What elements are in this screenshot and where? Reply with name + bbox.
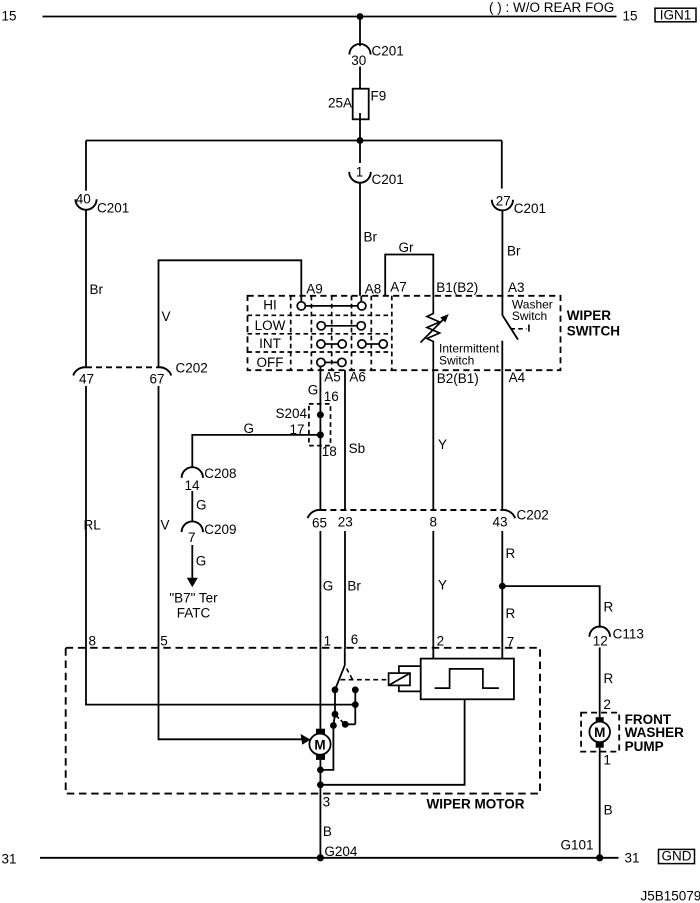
wiper switch grid row lines <box>248 315 392 352</box>
svg-text:14: 14 <box>185 478 201 493</box>
wire C113 to pump <box>599 648 601 718</box>
svg-text:OFF: OFF <box>257 355 284 370</box>
svg-text:16: 16 <box>324 389 339 404</box>
contact OFF left <box>317 358 325 366</box>
wiper switch box <box>248 296 561 370</box>
svg-text:65: 65 <box>312 516 327 531</box>
svg-text:GND: GND <box>662 849 692 864</box>
svg-text:2: 2 <box>603 697 611 712</box>
svg-text:Switch: Switch <box>439 353 474 367</box>
wire contact e to motor bottom <box>320 726 333 770</box>
fuse F9 25A <box>328 89 386 120</box>
contact INT right1 <box>358 340 366 348</box>
wire pin6 stub <box>344 648 346 665</box>
svg-text:Br: Br <box>90 282 104 297</box>
svg-text:6: 6 <box>351 632 359 647</box>
svg-text:G: G <box>244 421 255 436</box>
svg-text:C201: C201 <box>372 44 404 59</box>
svg-text:1: 1 <box>356 164 364 179</box>
connector C113 pin 12 <box>589 627 643 649</box>
wire R branch to washer pump <box>502 586 599 628</box>
wire A6 Sb down <box>344 370 346 510</box>
svg-text:15: 15 <box>2 9 17 24</box>
svg-text:1: 1 <box>324 633 332 648</box>
arrow into motor <box>301 734 311 745</box>
svg-text:FATC: FATC <box>177 605 211 620</box>
wire pin8 internal <box>86 648 355 705</box>
svg-text:WIPER: WIPER <box>567 308 612 323</box>
connector C201 pin 1 <box>349 164 404 187</box>
svg-text:47: 47 <box>79 371 94 386</box>
wire contact b down <box>354 690 356 725</box>
svg-text:3: 3 <box>323 795 331 810</box>
svg-text:Y: Y <box>438 437 447 452</box>
connector C202 pin 47 hook <box>73 367 86 375</box>
connector C202 dashed line left <box>86 366 159 368</box>
wire power rail 15 <box>43 16 617 18</box>
svg-text:G101: G101 <box>560 837 593 852</box>
wire G to motor pin1 <box>319 531 321 648</box>
svg-text:C202: C202 <box>517 508 549 523</box>
square wave symbol <box>435 669 499 688</box>
contact LOW right <box>357 322 365 330</box>
contact HI A8 <box>358 302 366 310</box>
wire LOW contacts link <box>325 325 357 327</box>
relay control dashed link <box>341 679 389 681</box>
junction dot motor bottom <box>317 767 324 774</box>
svg-text:Br: Br <box>347 578 361 593</box>
wire L to contact d <box>345 723 355 725</box>
svg-text:G: G <box>308 383 319 398</box>
connector C208 pin 14 <box>182 466 237 493</box>
svg-text:A6: A6 <box>349 370 366 385</box>
contact INT left1 <box>317 340 325 348</box>
junction R branch <box>499 583 506 590</box>
svg-text:SWITCH: SWITCH <box>567 324 620 339</box>
wiper switch grid vertical lines <box>291 296 392 370</box>
wire V lower <box>158 386 160 648</box>
svg-text:C201: C201 <box>372 172 404 187</box>
wire pin5 internal <box>159 648 302 740</box>
relay coil <box>389 673 410 685</box>
svg-text:G: G <box>196 498 207 513</box>
wire contact a down <box>334 690 336 714</box>
contact dot a <box>332 686 339 693</box>
wire right branch down <box>501 141 503 189</box>
junction on rail 15 <box>357 13 364 20</box>
relay coil bracket <box>399 666 421 691</box>
svg-text:INT: INT <box>259 336 281 351</box>
svg-text:V: V <box>161 518 170 533</box>
svg-text:31: 31 <box>625 851 640 866</box>
svg-text:67: 67 <box>150 371 165 386</box>
svg-text:8: 8 <box>89 634 97 649</box>
svg-text:IGN1: IGN1 <box>660 7 692 22</box>
svg-text:A8: A8 <box>365 281 382 296</box>
svg-text:B2(B1): B2(B1) <box>437 371 479 386</box>
svg-text:C201: C201 <box>514 201 546 216</box>
wire Y to pin2 <box>432 531 434 648</box>
svg-text:18: 18 <box>322 444 337 459</box>
svg-text:C202: C202 <box>176 361 208 376</box>
wire pin3 to ground <box>319 794 321 858</box>
svg-text:7: 7 <box>188 530 196 545</box>
svg-text:5: 5 <box>160 634 168 649</box>
wire A8 Br <box>359 183 361 296</box>
svg-text:C209: C209 <box>204 522 236 537</box>
svg-text:V: V <box>162 309 171 324</box>
svg-text:LOW: LOW <box>255 318 286 333</box>
blade2 solid <box>333 714 335 725</box>
relay timer box <box>421 659 514 700</box>
svg-text:8: 8 <box>430 515 438 530</box>
wire fuse to distribution rail <box>359 113 361 141</box>
svg-text:F9: F9 <box>371 89 387 104</box>
wire A5 G down <box>319 367 321 511</box>
wire pin1 to motor <box>319 648 321 729</box>
contact HI A9 <box>297 302 305 310</box>
wire distribution rail <box>86 140 502 142</box>
svg-text:27: 27 <box>496 193 511 208</box>
svg-text:B: B <box>604 803 613 818</box>
node GND <box>659 849 695 864</box>
connector C202 pin 65 hook <box>308 510 321 518</box>
svg-text:23: 23 <box>338 515 353 530</box>
junction dot pin3 <box>317 781 324 788</box>
svg-text:A7: A7 <box>390 280 407 295</box>
wire ground rail 31 <box>40 857 619 859</box>
connector C201 pin 30 <box>349 44 403 68</box>
wire R to pin7 <box>501 531 503 648</box>
svg-text:Y: Y <box>438 577 447 592</box>
svg-text:1: 1 <box>603 753 611 768</box>
wire pump to ground <box>599 748 601 858</box>
svg-text:2: 2 <box>437 633 445 648</box>
contact dot b <box>352 686 359 693</box>
svg-text:G204: G204 <box>324 844 358 859</box>
svg-text:A5: A5 <box>324 370 341 385</box>
wire C209 to FATC arrow <box>191 545 193 578</box>
svg-text:WIPER MOTOR: WIPER MOTOR <box>426 796 524 811</box>
svg-text:R: R <box>604 600 614 615</box>
svg-text:30: 30 <box>351 53 366 68</box>
svg-text:A4: A4 <box>509 370 526 385</box>
contact INT left2 <box>338 340 346 348</box>
connector C209 pin 7 <box>182 521 237 544</box>
svg-text:R: R <box>604 671 614 686</box>
switch link dashed diagonal <box>347 669 353 681</box>
svg-text:R: R <box>506 606 516 621</box>
svg-text:Sb: Sb <box>349 441 366 456</box>
wire splice to C208 <box>192 435 320 468</box>
svg-text:25A: 25A <box>328 96 352 111</box>
svg-text:A9: A9 <box>306 281 323 296</box>
ground G204 junction <box>317 854 324 861</box>
wire Br right branch <box>501 210 503 295</box>
svg-text:"B7" Ter: "B7" Ter <box>169 590 218 605</box>
svg-text:Br: Br <box>507 243 521 258</box>
svg-text:12: 12 <box>593 633 608 648</box>
wire B2(B1) Y down <box>432 370 434 510</box>
svg-text:M: M <box>594 725 605 740</box>
svg-text:R: R <box>506 546 516 561</box>
wire Br left branch <box>85 210 87 367</box>
wire HI contacts link <box>305 305 357 307</box>
wire center branch down <box>359 141 361 164</box>
contact INT right2 <box>379 340 387 348</box>
switch blade pin6 <box>335 665 345 690</box>
arrow to FATC <box>187 578 198 587</box>
svg-text:WASHER: WASHER <box>625 725 685 740</box>
wire V horizontal to A9 <box>159 260 302 367</box>
svg-text:HI: HI <box>263 298 277 313</box>
wire RL <box>85 386 87 648</box>
connector C202 pin 43 hook <box>502 510 515 518</box>
svg-text:7: 7 <box>507 635 515 650</box>
intermittent switch resistor <box>421 296 449 370</box>
svg-text:( ) : W/O REAR FOG: ( ) : W/O REAR FOG <box>489 0 614 15</box>
svg-text:Gr: Gr <box>399 240 415 255</box>
svg-text:31: 31 <box>2 852 17 867</box>
splice S204 <box>309 404 331 446</box>
wire pin7 to relay <box>501 648 503 659</box>
wire OFF link <box>325 361 338 363</box>
svg-text:43: 43 <box>493 515 508 530</box>
svg-text:PUMP: PUMP <box>625 739 664 754</box>
wire C201-30 to fuse F9 <box>359 67 361 96</box>
washer pump motor M1 <box>589 717 610 748</box>
junction dot on pin8 wire <box>352 701 359 708</box>
svg-text:B: B <box>323 824 332 839</box>
wire C208 to C209 <box>191 491 193 522</box>
contact OFF right <box>338 358 346 366</box>
wire left branch down <box>85 141 87 191</box>
svg-text:B1(B2): B1(B2) <box>436 280 478 295</box>
svg-text:Br: Br <box>364 230 378 245</box>
svg-text:J5B15079: J5B15079 <box>641 889 700 903</box>
connector C202 pin 67 hook <box>159 367 172 375</box>
contact dot d <box>342 721 349 728</box>
node IGN1 <box>655 7 696 22</box>
wire relay return <box>320 699 464 785</box>
connector C201 pin 40 <box>75 192 129 216</box>
pivot dot c <box>332 711 339 718</box>
ground G101 junction <box>596 854 603 861</box>
svg-text:A3: A3 <box>508 280 525 295</box>
wire INT left link <box>325 343 338 345</box>
svg-text:Switch: Switch <box>512 309 547 323</box>
junction on distribution rail <box>357 137 364 144</box>
wire motor bottom <box>319 760 321 794</box>
svg-text:C113: C113 <box>613 627 644 642</box>
svg-text:G: G <box>323 578 334 593</box>
front washer pump box <box>581 713 619 752</box>
svg-text:S204: S204 <box>275 406 307 421</box>
wire from rail to C201-30 <box>359 17 361 47</box>
connector C201 pin 27 <box>492 193 546 215</box>
svg-text:M: M <box>314 737 325 752</box>
wire Br to motor pin6 <box>344 531 346 648</box>
wire A4 down <box>501 370 503 510</box>
svg-text:C208: C208 <box>204 466 236 481</box>
wire A7 Gr loop <box>385 255 433 296</box>
contact LOW left <box>317 322 325 330</box>
connector C202 dashed line right <box>320 509 502 511</box>
wiper motor box <box>66 648 540 794</box>
svg-text:RL: RL <box>84 518 102 533</box>
svg-text:G: G <box>196 553 207 568</box>
wire pin2 to relay <box>432 648 434 659</box>
washer switch <box>502 296 529 370</box>
wire INT right link <box>366 343 379 345</box>
blade2 dashed link <box>337 716 343 722</box>
svg-text:C201: C201 <box>97 201 129 216</box>
svg-text:40: 40 <box>76 192 91 207</box>
contact dot e <box>330 722 337 729</box>
wiper motor M <box>309 729 330 760</box>
svg-text:15: 15 <box>623 9 638 24</box>
